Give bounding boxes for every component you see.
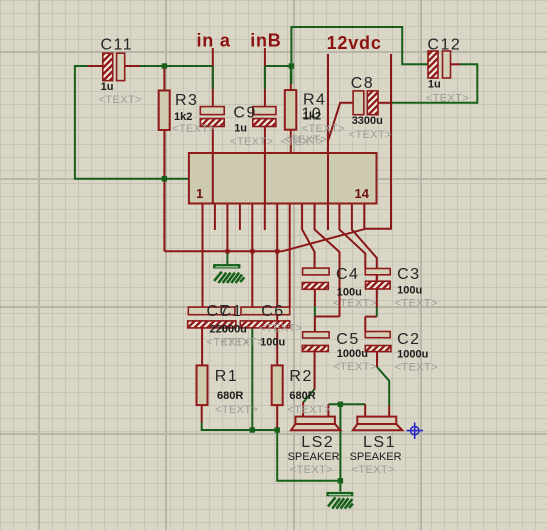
svg-text:<TEXT>: <TEXT> [172,123,215,135]
wire C11 left loop [75,66,189,179]
wire C8 right stub [378,102,391,104]
resistor R2 [272,365,283,405]
wire R4 bottom stub to IC [290,130,292,153]
wire pin14 stub [363,205,365,229]
wire green segment C4 minus node [314,306,316,317]
wire C6 minus down to bottom rail [251,328,253,430]
wire pin9 diagonal to C4 [302,205,315,269]
wire C2 minus diagonal to LS1 [377,367,389,406]
svg-text:<TEXT>: <TEXT> [395,298,438,310]
resistor R3 [159,91,170,131]
ground bottom symbol [327,492,353,508]
wire inB line crossing IC [264,153,266,204]
svg-text:inB: inB [250,31,281,51]
svg-text:<TEXT>: <TEXT> [333,298,376,310]
capacitor C5 [302,332,329,352]
svg-text:SPEAKER: SPEAKER [288,451,340,463]
wire pin8 line to C6 right end [289,205,291,308]
svg-text:C5: C5 [336,331,359,348]
svg-text:SPEAKER: SPEAKER [350,451,402,463]
svg-text:680R: 680R [289,390,315,402]
node R3 bottom junction [162,176,167,181]
ground mid symbol [213,264,244,283]
wire 12vdc right vertical [366,54,392,229]
wire R1 corner to bottom rail [202,422,278,430]
svg-text:C3: C3 [397,266,420,283]
wire LS2 right pin [327,404,329,416]
wire C11 right stub [125,65,140,67]
wire C4-C5 node horizontal [315,316,340,318]
wire C4 minus stub [314,289,316,306]
wire speaker row [328,403,365,405]
capacitor C11 [103,53,125,80]
wire pin1 line to C7 [202,205,204,308]
svg-text:100u: 100u [397,285,422,297]
capacitor C10 under in-a [200,107,224,127]
resistor R4 [285,90,297,130]
svg-text:<TEXT>: <TEXT> [259,323,302,335]
wire C5 minus stub [314,352,316,390]
capacitor C7 and C1 plates [188,307,236,328]
svg-text:LS1: LS1 [363,434,396,451]
wire green segment C3 minus node [376,307,378,317]
svg-text:<TEXT>: <TEXT> [221,337,264,349]
svg-text:0: 0 [222,324,228,336]
svg-text:<TEXT>: <TEXT> [395,362,438,374]
svg-text:C9: C9 [233,105,256,122]
svg-text:C11: C11 [101,37,134,54]
svg-text:<TEXT>: <TEXT> [333,361,376,373]
wire C3-C2 node horizontal [365,316,377,318]
node speaker row junction [338,402,343,407]
wire pin6 stub [264,205,266,231]
svg-text:C2: C2 [397,331,420,348]
svg-text:100u: 100u [260,337,285,349]
wire 12vdc line crossing IC [327,153,329,204]
wire pin2 stub [214,205,216,231]
wire C5 minus diagonal to LS2 [303,389,315,403]
wire R1 top stub [201,328,203,366]
wire inB cap to IC [264,127,266,204]
svg-text:1k2: 1k2 [174,111,192,123]
wire pin7 line to R2 [276,205,278,366]
wire in-a vertical [212,48,214,107]
speaker LS2 [291,417,340,431]
wire C5 plus stub [314,317,316,332]
capacitor C6 plates [240,307,289,328]
node in-a junction [162,63,167,68]
wire C3 inner gap [376,275,378,281]
wire 12vdc top loop [291,27,428,84]
svg-text:1000u: 1000u [337,348,368,360]
wire green segment in-a line [212,66,214,89]
svg-text:1: 1 [196,186,203,201]
capacitor C4 [302,268,329,289]
wire C12 right stub [451,63,461,65]
wire R3 bottom stub [163,130,165,179]
wire C12 right return loop [391,64,477,103]
svg-text:R2: R2 [289,368,312,385]
capacitor C12 [428,51,451,78]
op-amp U1 IC body [189,153,377,204]
svg-text:<TEXT>: <TEXT> [349,129,392,141]
svg-text:C12: C12 [427,37,461,54]
svg-text:LS2: LS2 [301,434,334,451]
svg-text:<TEXT>: <TEXT> [426,93,469,105]
node bottom loop junction [338,478,343,483]
node bottom rail junction 2 [275,427,280,432]
wire R1 bottom stub [201,405,203,422]
node bottom rail junction 1 [250,427,255,432]
wire pin10 diagonal to C4-C5 node [315,205,340,317]
svg-text:<TEXT>: <TEXT> [215,404,258,416]
wire inB vertical [264,48,266,107]
node 12vdc junction [289,63,294,68]
capacitor C2 [365,332,391,352]
wire in-a cap to IC [212,127,214,204]
svg-text:C1: C1 [220,303,243,320]
svg-text:C8: C8 [351,75,374,92]
svg-text:<TEXT>: <TEXT> [290,464,333,476]
wire main horizontal bus [164,250,282,252]
svg-text:1k2: 1k2 [303,111,321,123]
wire green segment inB line [264,66,266,89]
wire pin3 to bus [226,205,228,252]
svg-text:<TEXT>: <TEXT> [287,404,330,416]
wire LS1 right pin [388,406,390,417]
wire C11 right to in-a node [139,65,213,67]
origin marker [407,422,424,439]
wire pin5 line to C6 [251,205,253,308]
svg-text:C4: C4 [336,266,359,283]
capacitor C9 [253,107,276,127]
svg-text:3300u: 3300u [352,115,383,127]
resistor R1 [197,365,208,405]
svg-text:<TEXT>: <TEXT> [230,136,273,148]
wire long shallow diagonal [282,229,366,252]
svg-text:R3: R3 [175,92,198,109]
wire pin4 stub [239,205,241,231]
wire C2 minus stub [376,352,378,368]
wire pin12 diagonal to C3 [339,205,365,269]
svg-text:C6: C6 [261,303,284,320]
node bus junction pin3 [225,249,229,253]
wire inB node to 12vdc node [265,65,292,67]
svg-text:<TEXT>: <TEXT> [99,94,142,106]
svg-text:1u: 1u [101,81,114,93]
wire 12vdc vertical through IC [327,54,329,230]
wire R2 bottom stub [276,405,278,430]
svg-text:in a: in a [197,31,231,51]
svg-text:<TEXT>: <TEXT> [352,464,395,476]
node bus junction pin7 [275,249,279,253]
node bus junction pin5 [250,249,254,253]
svg-text:1u: 1u [234,123,247,135]
wire node vertical R3 to bus [163,179,165,252]
wire R3 top stub [163,67,165,91]
wire mid ground stem [226,251,228,264]
wire LS2 left pin [302,402,304,417]
wire pin13 diagonal to C3 minus [352,205,377,308]
svg-text:<TEXT>: <TEXT> [284,134,327,146]
wire C11 left stub [88,65,103,67]
svg-text:1000u: 1000u [397,349,428,361]
speaker LS1 [353,417,402,431]
svg-text:R1: R1 [215,368,238,385]
svg-text:22000u: 22000u [210,324,247,336]
capacitor C3 [365,269,390,290]
wire green segment R4 top [290,66,292,84]
wire in-a line crossing IC [212,153,214,204]
wire bottom loop to speakers node [277,404,340,481]
wire LS1 left pin [364,404,366,416]
svg-text:12vdc: 12vdc [327,33,382,53]
wire ground stem bottom [339,481,341,492]
svg-text:14: 14 [355,186,370,201]
wire C3-C2 node to C2 plus [364,317,366,332]
wire R4 top stub [290,83,292,90]
svg-text:1u: 1u [428,79,441,91]
wire diagonal branch to C8 [328,103,353,141]
svg-text:680R: 680R [217,390,243,402]
capacitor C8 [353,91,378,115]
